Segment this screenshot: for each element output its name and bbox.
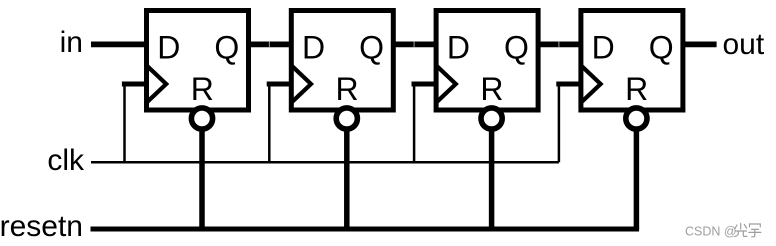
wire U3.Q to U4.D: [536, 42, 584, 48]
svg-text:out: out: [723, 28, 765, 61]
flip-flop U1: [122, 11, 249, 230]
U4 clock edge triangle: [582, 66, 601, 101]
wire clk branch to U4: [558, 84, 561, 162]
wire clk branch to U3: [413, 84, 416, 162]
wire U2.R to resetn: [344, 119, 350, 230]
U3 clock stub: [412, 82, 438, 87]
U3 clock edge triangle: [437, 66, 456, 101]
svg-text:R: R: [191, 71, 214, 107]
svg-text:R: R: [480, 71, 503, 107]
svg-text:R: R: [625, 71, 648, 107]
wire resetn horizontal net: [91, 227, 640, 232]
U1 box: [147, 11, 249, 111]
svg-text:resetn: resetn: [0, 210, 83, 243]
svg-text:D: D: [302, 30, 325, 66]
svg-text:in: in: [60, 26, 83, 59]
wire joint seam node B: [413, 42, 415, 48]
U4 clock stub: [556, 82, 582, 87]
U1 reset bubble: [191, 108, 212, 129]
wire in to U1.D: [91, 42, 147, 48]
hanzi guang: [735, 224, 747, 237]
svg-text:D: D: [157, 30, 180, 66]
wire U1.R to resetn: [199, 119, 205, 230]
svg-text:Q: Q: [214, 30, 239, 66]
U3 box: [436, 11, 538, 111]
svg-text:CSDN @: CSDN @: [685, 225, 737, 239]
wire joint seam node A: [268, 42, 270, 48]
wire U3.R to resetn: [489, 119, 495, 230]
wire clk branch to U1: [123, 84, 126, 162]
U4 reset bubble: [626, 108, 647, 129]
wire U4.R to resetn: [634, 119, 640, 230]
svg-text:Q: Q: [359, 30, 384, 66]
U2 reset bubble: [336, 108, 357, 129]
U1 clock stub: [122, 82, 148, 87]
watermark CSDN @guangyu: [685, 224, 761, 239]
wire U1.Q to U2.D: [246, 42, 294, 48]
wire clk horizontal net: [91, 161, 559, 164]
wire U2.Q to U3.D: [391, 42, 439, 48]
wire clk branch to U2: [268, 84, 271, 162]
svg-text:Q: Q: [504, 30, 529, 66]
wire joint seam node C: [558, 42, 560, 48]
U4 box: [581, 11, 683, 111]
hanzi yu: [749, 224, 761, 237]
U3 reset bubble: [481, 108, 502, 129]
flip-flop U2: [267, 11, 394, 230]
svg-text:Q: Q: [649, 30, 674, 66]
flip-flop U3: [412, 11, 539, 230]
flip-flop U4: [556, 11, 683, 230]
U1 clock edge triangle: [148, 66, 167, 101]
U2 clock edge triangle: [292, 66, 311, 101]
wire U4.Q to out: [680, 42, 716, 48]
U2 box: [291, 11, 393, 111]
U2 clock stub: [267, 82, 293, 87]
svg-text:D: D: [592, 30, 615, 66]
svg-text:D: D: [447, 30, 470, 66]
svg-text:clk: clk: [47, 144, 85, 177]
svg-text:R: R: [336, 71, 359, 107]
